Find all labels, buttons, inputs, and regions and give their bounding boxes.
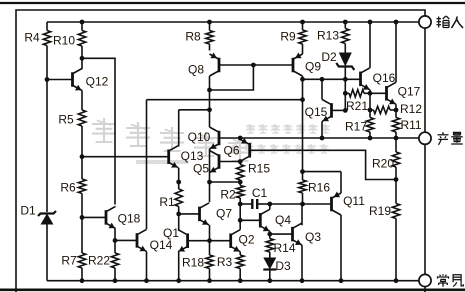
diode D3 [263,258,276,270]
node rail-Q16c [368,20,373,25]
node Q15c-wire79 [320,77,325,82]
wire R15-to-node [239,180,241,182]
wire C1node-down-to-Q4base [239,204,241,220]
resistor R4 [43,31,50,46]
wire Q3 base feed [270,233,293,235]
svg-text:R16: R16 [308,180,330,194]
label R22 [88,253,110,267]
node Q6 emitter row [238,136,243,141]
wire colC W1-to-Q18c [114,58,116,204]
wire R16top-to-Q11 [303,171,342,173]
label R20 [372,156,394,170]
resistor R19 [392,204,399,219]
transistor Q5 [210,151,220,173]
wire node-to-R16 [302,172,304,180]
wire Q13 base feed [82,156,169,158]
transistor Q7 [200,203,210,225]
wire rail-to-R4 [46,22,48,31]
resistor R7 [78,253,85,268]
node bottomrail-R18 [207,278,212,283]
wire node-to-R22 [114,240,116,253]
label common terminal 常见 [438,274,464,287]
wire node-to-D1 [46,80,48,213]
node R16 bottom [300,202,305,207]
wire A horizontal [147,99,303,101]
node Q8Q9 base node [251,63,256,68]
node rail-R10 [80,20,85,25]
svg-text:R5: R5 [58,112,74,126]
transistor Q17 [387,82,397,104]
svg-text:D2: D2 [321,50,337,64]
label Q13 [181,149,204,163]
node C1 left [238,202,243,207]
transistor Q12 [47,69,82,91]
label R21 [346,99,368,113]
resistor R2 [237,186,244,199]
wire rail-to-R10 [81,22,83,31]
resistor R18 [206,255,213,269]
wire R22-to-rail [114,268,116,281]
node wire79 start [300,77,305,82]
wire Q13e-to-node [178,168,180,182]
terminal input [419,16,431,28]
svg-text:Q2: Q2 [238,232,254,246]
wire Q6 base jog [250,150,396,179]
label R1 [159,195,175,209]
svg-text:D3: D3 [275,259,291,273]
label Q4 [275,213,291,227]
node rail-R13 [343,20,348,25]
transistor Q16 [361,68,371,90]
wire 79 Q9c-to-Q16base [303,78,361,80]
label Q18 [118,211,141,225]
node R15 bottom [238,180,243,185]
label Q9 [305,59,321,73]
node bottomrail-Q14e [144,278,149,283]
node Q16e-R21 [368,91,373,96]
svg-text:R10: R10 [53,33,75,47]
wire Q14 base feed [115,239,137,241]
wire C1row to R16col [270,203,303,205]
node bottomrail-D3 [267,278,272,283]
wire Q14e-to-rail [146,251,148,280]
wire R5-to-node [81,126,83,157]
wire colF Q10e-to-Q7c [209,151,211,203]
node Q18 base [80,215,85,220]
wire Q4 base feed [240,219,260,221]
wire Q9c-down [302,76,304,172]
resistor R20 [392,152,399,167]
wire R17 [369,116,371,119]
svg-text:D1: D1 [20,203,36,217]
wire basenode-to-collector [210,65,254,90]
svg-text:R14: R14 [273,241,295,255]
wire R10-to-node [81,46,83,58]
wire R7-to-rail [81,268,83,281]
node Q8 collector [207,88,212,93]
wire Q3e-to-rail [301,245,303,281]
wire R13-to-D2 [344,44,346,53]
wire Q17e-to-R11 [395,104,397,117]
label R3 [217,255,233,269]
svg-text:Q14: Q14 [150,238,173,252]
resistor R11 [392,118,399,133]
node Q15 base [343,108,348,113]
svg-text:R18: R18 [182,255,204,269]
wire Q7e-to-R18 [209,241,211,255]
label R15 [248,161,270,175]
wire output row [219,137,419,139]
label D1 [20,203,36,217]
node C1 right [267,202,272,207]
label R5 [58,112,74,126]
label R12 [400,102,422,116]
node Q15e-row [320,136,325,141]
wire R20-to-node [395,167,397,180]
wire Q12 collector stub [81,58,83,69]
resistor R16 [299,180,306,193]
wire Q16c-to-rail [369,22,371,68]
svg-text:R22: R22 [88,253,110,267]
label Q5 [193,161,209,175]
node rail-R8 [207,20,212,25]
wire R14-to-D3 [269,252,271,258]
svg-text:R4: R4 [24,30,40,44]
node Q13e-R1 [176,180,181,185]
label Q10 [188,130,211,144]
label Q14 [150,238,173,252]
svg-text:Q12: Q12 [86,74,109,88]
resistor R12 [374,106,391,113]
terminal common [419,274,431,286]
label output terminal 产量 [438,132,463,145]
svg-text:R1: R1 [159,195,175,209]
wire Q11e-up [340,172,342,193]
svg-text:Q15: Q15 [305,105,328,119]
label R14 [273,241,295,255]
wire node-to-R15 [239,162,241,165]
node R12 left [368,108,373,113]
transistor Q6 [240,138,250,162]
label Q17 [398,84,421,98]
svg-text:Q1: Q1 [163,226,179,240]
wire colF-to-Q10 [209,110,211,127]
wire row-to-R20 [395,138,397,152]
wire B horizontal [179,109,210,111]
node Q12 collector [80,56,85,61]
diode D2 [336,53,354,71]
node Q12 base [45,77,50,82]
svg-text:Q9: Q9 [305,59,321,73]
label R6 [60,180,76,194]
wire node-to-R2 [239,182,241,186]
wire node-to-R1 [178,182,180,189]
label R9 [280,29,296,43]
resistor R17 [366,118,373,133]
diode D1 (zener) [38,211,56,225]
node bottomrail-R7 [80,278,85,283]
label R17 [345,119,367,133]
svg-text:R21: R21 [346,99,368,113]
wire Q3c-up [301,204,303,225]
label D2 [321,50,337,64]
svg-text:C1: C1 [252,186,268,200]
wire D1-to-bottom [46,225,48,281]
wire R11-to-row [395,132,397,138]
node bottomrail-R19 [394,278,399,283]
node Q3 base node [267,232,272,237]
wire rail-to-R8 [209,22,211,31]
wire rail-to-R9 [302,22,304,30]
resistor R1 [175,189,182,207]
wire Q8-Q9 base link [219,64,293,66]
svg-text:Q18: Q18 [118,211,141,225]
wire B corner down [178,110,180,147]
wire node-to-Q1c [178,214,180,231]
label input terminal 输入 [437,16,464,28]
resistor R3 [237,255,244,269]
node Q4 base [238,218,243,223]
wire Q15e-down [321,121,323,138]
wire Q7e-down [209,225,211,241]
svg-text:R13: R13 [317,28,339,42]
wire R1-to-Q7base [178,207,180,214]
node row-R11 [394,136,399,141]
wire R9-to-Q9e [302,44,304,54]
svg-text:R7: R7 [61,253,77,267]
resistor R10 [78,31,85,47]
label R10 [53,33,75,47]
svg-text:Q17: Q17 [398,84,421,98]
wire Q2e-to-R3 [239,252,241,255]
label Q12 [86,74,109,88]
label Q2 [238,232,254,246]
wire R16-to-node [302,193,304,204]
resistor R15 [237,165,244,181]
resistor R6 [78,179,85,194]
svg-text:R20: R20 [372,156,394,170]
svg-text:R2: R2 [220,187,236,201]
wire Q18base-to-R7 [81,217,83,253]
wire C1 left lead [240,203,252,205]
wire Q1-Q2 base link [188,240,231,242]
node row-R17 [368,136,373,141]
node wireB end [207,107,212,112]
transistor Q2 [231,230,241,252]
wire Q16e-down [369,90,371,117]
wire R21 left lead [345,92,349,94]
node bottomrail-R22 [113,278,118,283]
node bottomrail-Q11c [339,278,344,283]
wire R2-to-C1node [239,198,241,204]
wire Q5 base feed [219,161,240,163]
wire D2-to-wire79 [344,67,346,80]
wire Q11c-down [340,215,342,281]
label Q11 [343,194,365,208]
wire Q10e-down [209,149,211,151]
resistor R8 [206,31,213,45]
resistor R5 [78,110,85,126]
transistor Q13 [169,146,179,168]
wire Q8c-down [209,76,211,110]
label Q6 [223,143,239,157]
node D2-wire79 [343,77,348,82]
node R5-R6 junction [80,154,85,159]
capacitor C1 [252,199,257,209]
node bottomrail-Q3e [300,278,305,283]
svg-text:Q5: Q5 [193,161,209,175]
node Q5-Q7 junction [207,180,212,185]
wire node-to-R14 [269,234,271,238]
label D3 [275,259,291,273]
wire Q4e-to-node [269,231,271,234]
node Q7 base [176,212,181,217]
transistor Q8 [210,53,220,77]
svg-text:Q16: Q16 [373,71,396,85]
label Q1 [163,226,179,240]
node rail-R9 [300,20,305,25]
node bottomrail-R3 [238,278,243,283]
resistor R9 [299,30,306,44]
label Q15 [305,105,328,119]
label R4 [24,30,40,44]
node R21 left [343,91,348,96]
transistor Q3 [293,223,303,245]
wire output-to-common [424,145,426,275]
label R18 [182,255,204,269]
transistor Q1 [178,230,188,252]
transistor Q18 [82,206,116,228]
svg-text:R12: R12 [400,102,422,116]
label R8 [185,29,201,43]
wire R12 left lead [370,109,374,111]
wire R18-to-rail [209,269,211,281]
transistor Q14 [137,229,147,251]
svg-text:R9: R9 [280,29,296,43]
wire input-to-output [424,28,426,132]
svg-text:R11: R11 [400,118,421,132]
svg-text:R19: R19 [369,204,391,218]
wire D3-to-rail [269,270,271,281]
svg-text:R15: R15 [248,161,270,175]
svg-text:R8: R8 [185,29,201,43]
wire Q11 base feed [303,203,332,205]
label Q7 [216,206,232,220]
svg-text:Q6: Q6 [223,143,239,157]
svg-text:Q11: Q11 [343,194,365,208]
node rail-Q17c [394,20,399,25]
resistor R22 [111,253,118,268]
transistor Q11 [332,192,342,216]
svg-text:R3: R3 [217,255,233,269]
svg-text:Q8: Q8 [188,62,204,76]
label R7 [61,253,77,267]
node R16 top [300,169,305,174]
label R13 [317,28,339,42]
terminal output [419,132,431,144]
label R16 [308,180,330,194]
svg-text:Q10: Q10 [188,130,211,144]
transistor Q15 [322,99,332,121]
wire R6-to-Q18base [81,194,83,218]
node Q14 base [113,238,118,243]
wire R19-to-rail [395,219,397,281]
svg-text:R17: R17 [345,119,367,133]
wire R17-to-row [369,132,371,138]
wire Q15 base feed [332,109,346,111]
wire A corner down [146,100,148,230]
resistor R14 [266,239,273,253]
resistor R21 [349,90,364,97]
wire R8-to-Q8e [209,44,211,51]
wire R12 right lead [390,109,396,111]
wire C1 right lead [257,203,270,205]
svg-text:R6: R6 [60,180,76,194]
wire Q18e-to-node [114,228,116,240]
node R12 right [394,108,399,113]
node Q6c-R15top [238,159,243,164]
transistor Q10 [210,127,220,149]
wire Q7 base feed [179,213,200,215]
wire Q12e-to-R5 [81,91,83,111]
wire node-to-R6 [81,157,83,179]
wire Q15c-up [321,79,323,99]
label Q3 [305,230,321,244]
label R19 [369,204,391,218]
label Q8 [188,62,204,76]
node wireA end [300,97,305,102]
wire W1 Q12c-to-colC [82,57,115,60]
wire C horizontal [210,181,241,183]
label Q16 [373,71,396,85]
node bottomrail-Q1e [176,278,181,283]
wire R3-to-rail [239,269,241,281]
wire node-to-R19 [395,180,397,204]
wire bottom rail [47,280,419,282]
svg-text:Q3: Q3 [305,230,321,244]
wire Q4base-to-Q2c [239,220,241,229]
wire Q17c-to-rail [395,22,397,82]
wire common-below [424,287,426,292]
svg-text:Q4: Q4 [275,213,291,227]
wire Q4c-to-C1node [269,204,271,209]
wire R4-to-Q12base [46,46,48,80]
node R20-R19 [394,177,399,182]
wire Q1e-to-rail [178,252,180,281]
transistor Q9 [293,53,303,77]
label C1 [252,186,268,200]
wire rail-to-R13 [344,22,346,29]
label R2 [220,187,236,201]
node Q7e-R18 [207,238,212,243]
wire R21-to-Q17base [364,92,387,94]
label R11 [400,118,421,132]
wire top rail V+ [47,21,419,23]
svg-text:Q7: Q7 [216,206,232,220]
resistor R13 [342,29,349,44]
wire D2col-down [344,79,346,110]
transistor Q4 [260,209,270,231]
